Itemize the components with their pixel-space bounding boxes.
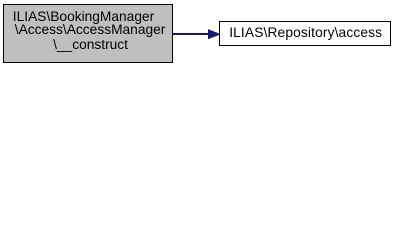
label line 2: \Access\AccessManager <box>15 23 166 37</box>
arrowhead of call edge <box>206 26 223 43</box>
label: ILIAS\Repository\access <box>229 26 382 40</box>
wire: call edge shaft <box>173 33 209 35</box>
node: caller box ILIAS\BookingManager\Access\AccessManager\__construct <box>3 4 173 63</box>
label line 1: ILIAS\BookingManager <box>13 10 154 24</box>
label line 3: \__construct <box>53 38 128 52</box>
node: callee box ILIAS\Repository\access <box>219 21 391 46</box>
